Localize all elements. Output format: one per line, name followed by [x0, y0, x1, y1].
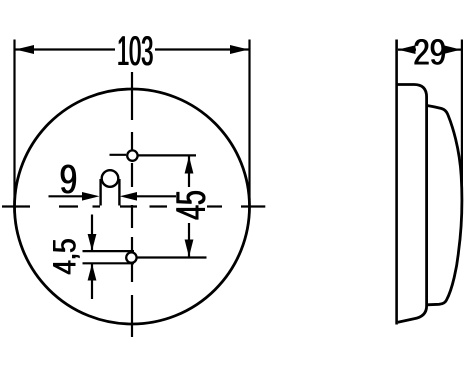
svg-text:29: 29: [414, 32, 447, 73]
svg-text:103: 103: [118, 29, 154, 76]
svg-text:4,5: 4,5: [48, 239, 83, 275]
svg-text:45: 45: [168, 191, 214, 221]
svg-text:9: 9: [60, 156, 78, 202]
